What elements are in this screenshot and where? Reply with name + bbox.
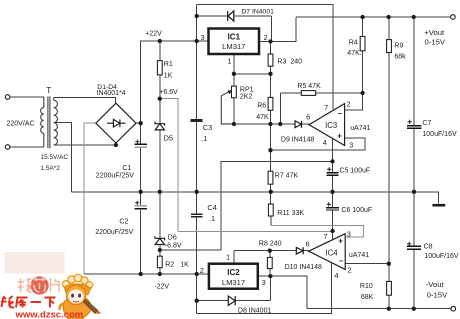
svg-text:R9: R9 bbox=[394, 43, 403, 50]
svg-text:47K.: 47K. bbox=[347, 50, 361, 57]
svg-text:T: T bbox=[46, 86, 51, 95]
svg-text:2: 2 bbox=[264, 33, 268, 42]
svg-text:1K: 1K bbox=[180, 262, 189, 269]
svg-text:D6: D6 bbox=[168, 235, 177, 242]
svg-text:C5 100uF: C5 100uF bbox=[339, 167, 370, 174]
svg-text:4: 4 bbox=[323, 138, 327, 147]
svg-text:-6.8V: -6.8V bbox=[165, 243, 182, 250]
svg-text:D5: D5 bbox=[164, 134, 173, 143]
svg-text:4: 4 bbox=[334, 271, 338, 280]
svg-text:-Vout: -Vout bbox=[426, 280, 445, 289]
svg-text:LM317: LM317 bbox=[222, 42, 245, 51]
svg-text:3: 3 bbox=[262, 278, 266, 287]
svg-text:C6 100uF: C6 100uF bbox=[341, 207, 372, 214]
svg-text:R2: R2 bbox=[165, 262, 174, 269]
svg-text:2: 2 bbox=[348, 266, 352, 275]
svg-text:RP1: RP1 bbox=[240, 87, 254, 94]
svg-text:.1: .1 bbox=[201, 134, 207, 143]
svg-text:47K: 47K bbox=[256, 114, 269, 121]
svg-text:LM317: LM317 bbox=[222, 278, 245, 287]
svg-text:1K: 1K bbox=[164, 73, 173, 80]
svg-text:R4: R4 bbox=[349, 40, 358, 47]
svg-text:C8: C8 bbox=[424, 243, 433, 250]
svg-text:IC4: IC4 bbox=[325, 248, 338, 257]
svg-text:R3: R3 bbox=[277, 59, 286, 66]
svg-text:+6.6V: +6.6V bbox=[159, 89, 178, 96]
svg-text:uA741: uA741 bbox=[349, 252, 369, 259]
svg-text:2K2: 2K2 bbox=[240, 94, 253, 101]
svg-text:1: 1 bbox=[226, 252, 230, 261]
svg-text:220V/AC: 220V/AC bbox=[7, 121, 35, 128]
svg-text:3: 3 bbox=[200, 33, 204, 42]
svg-text:240: 240 bbox=[290, 59, 302, 66]
svg-text:+: + bbox=[337, 132, 342, 141]
svg-text:68K: 68K bbox=[361, 294, 374, 301]
svg-text:C3: C3 bbox=[203, 123, 212, 132]
svg-text:100uF/16V: 100uF/16V bbox=[424, 253, 459, 260]
svg-text:+22V: +22V bbox=[145, 30, 162, 37]
svg-text:7: 7 bbox=[324, 103, 328, 112]
svg-text:R1: R1 bbox=[164, 61, 173, 68]
svg-text:6: 6 bbox=[306, 113, 310, 122]
svg-text:R5 47K: R5 47K bbox=[297, 83, 321, 90]
svg-text:C7: C7 bbox=[422, 120, 431, 127]
svg-text:100uF/16V: 100uF/16V bbox=[422, 131, 457, 138]
svg-text:R11 33K: R11 33K bbox=[277, 210, 304, 217]
svg-text:C2: C2 bbox=[119, 219, 128, 226]
svg-text:−: − bbox=[339, 257, 344, 266]
svg-text:D7 IN4001: D7 IN4001 bbox=[241, 9, 274, 16]
svg-text:1.5A*2: 1.5A*2 bbox=[41, 165, 61, 172]
svg-text:2200uF/25V: 2200uF/25V bbox=[95, 229, 133, 236]
svg-text:uA741: uA741 bbox=[350, 125, 370, 132]
svg-text:2200uF/25V: 2200uF/25V bbox=[96, 173, 134, 180]
svg-text:68k: 68k bbox=[394, 54, 406, 61]
svg-text:C4: C4 bbox=[207, 203, 216, 212]
svg-text:1: 1 bbox=[227, 57, 231, 66]
svg-text:C1: C1 bbox=[122, 165, 131, 172]
svg-text:IC2: IC2 bbox=[227, 268, 240, 277]
svg-text:3: 3 bbox=[347, 229, 351, 238]
svg-text:IC3: IC3 bbox=[325, 121, 337, 130]
svg-text:.1: .1 bbox=[209, 214, 215, 223]
svg-text:−: − bbox=[338, 109, 343, 118]
svg-text:R7 47K: R7 47K bbox=[275, 172, 299, 179]
svg-text:2: 2 bbox=[347, 100, 351, 109]
svg-text:+: + bbox=[338, 236, 343, 245]
svg-text:+Vout: +Vout bbox=[424, 28, 445, 37]
svg-text:www.dzsc.com: www.dzsc.com bbox=[15, 310, 84, 319]
svg-text:0-15V: 0-15V bbox=[427, 291, 448, 300]
svg-text:-22V: -22V bbox=[154, 284, 169, 291]
svg-text:R6: R6 bbox=[257, 103, 266, 110]
svg-text:15.5V/AC: 15.5V/AC bbox=[41, 154, 69, 161]
svg-text:6: 6 bbox=[306, 240, 310, 249]
svg-text:3: 3 bbox=[349, 141, 353, 150]
svg-text:IN4001*4: IN4001*4 bbox=[97, 90, 126, 97]
svg-text:0-15V: 0-15V bbox=[425, 38, 446, 47]
svg-text:D9 IN4148: D9 IN4148 bbox=[281, 137, 315, 144]
svg-text:7: 7 bbox=[323, 232, 327, 241]
svg-text:R8 240: R8 240 bbox=[259, 241, 282, 248]
svg-text:2: 2 bbox=[200, 266, 204, 275]
svg-text:D8 IN4001: D8 IN4001 bbox=[238, 307, 272, 314]
svg-text:IC1: IC1 bbox=[228, 33, 241, 42]
svg-text:R10: R10 bbox=[360, 283, 373, 290]
svg-text:D10 IN4148: D10 IN4148 bbox=[285, 264, 322, 271]
